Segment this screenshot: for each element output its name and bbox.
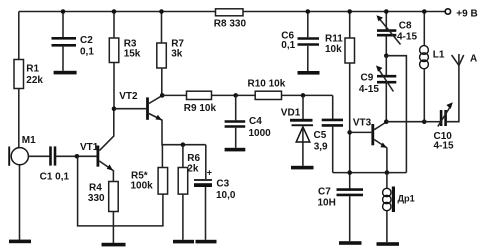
ground C6 xyxy=(298,71,320,75)
svg-text:R10 10k: R10 10k xyxy=(248,79,286,90)
wire VT1 emitter to R4 xyxy=(112,170,114,182)
wire node to R5 xyxy=(161,145,163,168)
node rail C8 xyxy=(384,9,389,14)
svg-text:10,0: 10,0 xyxy=(216,190,236,201)
wire tank xyxy=(386,121,424,123)
svg-text:4-15: 4-15 xyxy=(397,32,417,43)
wire emitter rail xyxy=(333,172,407,174)
svg-text:+9 В: +9 В xyxy=(456,9,477,20)
ground C3 xyxy=(196,240,217,244)
svg-text:C3: C3 xyxy=(216,179,229,190)
node VT2 collector xyxy=(160,93,165,98)
wire R6 to ground xyxy=(182,194,184,240)
wire top rail right segment xyxy=(243,11,445,13)
ground R4 xyxy=(102,243,126,247)
svg-text:VT2: VT2 xyxy=(119,91,138,102)
wire collector to R9 xyxy=(162,94,186,96)
svg-text:C9: C9 xyxy=(361,73,374,84)
capacitor C3 electrolytic xyxy=(194,145,236,240)
node VT3 collector xyxy=(384,119,389,124)
wire VT2 emitter node xyxy=(162,120,206,145)
svg-text:VT3: VT3 xyxy=(353,118,372,129)
wire R7 to VT2 collector xyxy=(161,68,163,95)
svg-text:1000: 1000 xyxy=(249,128,272,139)
node C8/C9 tee xyxy=(384,53,389,58)
svg-text:R8 330: R8 330 xyxy=(214,18,247,29)
resistor R8 xyxy=(214,9,247,30)
node +9V terminal xyxy=(445,9,478,20)
node R6 top xyxy=(181,142,186,147)
svg-text:+: + xyxy=(207,168,212,178)
resistor R6 xyxy=(178,153,200,194)
node VT2 base xyxy=(112,106,117,111)
resistor R7 xyxy=(157,39,185,69)
svg-text:100k: 100k xyxy=(131,181,154,192)
varicap VD1 xyxy=(281,95,313,165)
svg-text:M1: M1 xyxy=(22,135,36,146)
svg-text:C8: C8 xyxy=(399,21,412,32)
svg-text:VT1: VT1 xyxy=(80,142,99,153)
wire rail to R1 xyxy=(18,12,20,60)
inductor L1 xyxy=(420,12,445,122)
node base VT1 xyxy=(75,154,80,159)
svg-text:0,1: 0,1 xyxy=(281,40,295,51)
microphone M1 xyxy=(9,135,36,166)
wire feedback R5 to VT1 base xyxy=(78,156,163,226)
resistor R1 xyxy=(14,60,43,89)
svg-text:R9 10k: R9 10k xyxy=(184,103,217,114)
svg-text:10k: 10k xyxy=(325,44,342,55)
svg-text:R1: R1 xyxy=(26,64,39,75)
svg-text:0,1: 0,1 xyxy=(80,47,94,58)
choke Dr1 xyxy=(383,173,415,243)
svg-text:4-15: 4-15 xyxy=(359,84,379,95)
node rail R3 xyxy=(112,9,117,14)
wire C1 to node xyxy=(56,155,97,157)
capacitor C6 xyxy=(281,12,319,72)
node emitter rail Dr1 xyxy=(385,170,390,175)
ground C7 xyxy=(339,241,362,245)
svg-text:2k: 2k xyxy=(187,164,199,175)
resistor R3 xyxy=(109,38,141,63)
wire top rail left segment xyxy=(19,11,216,13)
node VT3 base xyxy=(347,130,352,135)
trimmer capacitor C9 xyxy=(359,56,396,122)
resistor R10 xyxy=(248,79,286,100)
transistor VT1 xyxy=(80,109,114,171)
wire R9 to node xyxy=(212,94,256,96)
svg-text:3,9: 3,9 xyxy=(314,142,328,153)
wire C5 to emitter rail xyxy=(332,127,334,173)
node R9/R10/C4 xyxy=(233,93,238,98)
trimmer capacitor C10 xyxy=(434,102,454,151)
transistor VT3 xyxy=(350,118,387,148)
capacitor C1 xyxy=(40,146,70,182)
wire rail to R7 xyxy=(161,12,163,44)
ground M1 xyxy=(9,240,31,244)
node rail R7 xyxy=(159,9,164,14)
resistor R9 xyxy=(184,91,217,114)
svg-text:C5: C5 xyxy=(314,130,327,141)
wire R11 to VT3 base and C7 xyxy=(349,63,351,189)
wire R3 to VT2 base xyxy=(113,63,115,109)
svg-text:R11: R11 xyxy=(325,34,343,45)
wire rail to R3 xyxy=(113,12,115,39)
node tank L1 xyxy=(422,119,427,124)
wire VT3 emitter down xyxy=(386,148,388,173)
svg-text:Др1: Др1 xyxy=(398,194,415,204)
node rail R11 xyxy=(347,9,352,14)
svg-text:10H: 10H xyxy=(318,198,336,209)
resistor R5 xyxy=(131,168,168,195)
svg-text:L1: L1 xyxy=(433,50,445,61)
ground VD1 xyxy=(291,166,314,170)
wire R10 to node xyxy=(282,94,333,96)
node rail C2 xyxy=(61,9,66,14)
svg-text:4-15: 4-15 xyxy=(434,141,454,152)
ground R6 xyxy=(173,240,194,244)
wire node to C5 xyxy=(332,95,334,119)
wire M1 to C1 xyxy=(28,155,49,157)
svg-text:R6: R6 xyxy=(187,153,200,164)
ground C4 xyxy=(225,148,246,152)
capacitor C5 xyxy=(314,120,344,153)
wire M1 to ground xyxy=(19,165,21,240)
capacitor C4 xyxy=(225,95,272,147)
resistor R11 xyxy=(325,34,355,64)
node rail C6 xyxy=(306,9,311,14)
wire tee to right drop xyxy=(386,56,406,173)
wire R1 to M1 xyxy=(18,89,20,149)
node emitter rail C7 xyxy=(347,170,352,175)
wire R4 to ground xyxy=(112,212,114,244)
capacitor C2 xyxy=(52,12,95,71)
ground Dr1 xyxy=(377,242,400,246)
wire tank to C10 xyxy=(424,121,440,123)
svg-text:22k: 22k xyxy=(26,75,43,86)
svg-text:VD1: VD1 xyxy=(281,108,301,119)
node R10/VD1/C5 xyxy=(301,93,306,98)
svg-text:330: 330 xyxy=(88,193,105,204)
trimmer capacitor C8 xyxy=(377,12,418,56)
svg-text:A: A xyxy=(470,54,477,65)
svg-text:C4: C4 xyxy=(249,116,262,127)
ground C2 xyxy=(54,71,77,75)
capacitor C7 xyxy=(318,187,364,242)
svg-text:R4: R4 xyxy=(89,183,102,194)
node rail L1 xyxy=(422,9,427,14)
antenna A xyxy=(452,54,478,66)
svg-text:C1 0,1: C1 0,1 xyxy=(40,172,70,183)
svg-text:3k: 3k xyxy=(171,49,183,60)
wire C10 to antenna xyxy=(447,65,459,121)
svg-text:15k: 15k xyxy=(124,49,141,60)
wire rail to R11 xyxy=(349,12,351,39)
resistor R4 xyxy=(88,182,118,212)
wire node to R6 xyxy=(182,145,184,168)
transistor VT2 xyxy=(114,91,162,120)
svg-text:C2: C2 xyxy=(80,35,93,46)
svg-text:C7: C7 xyxy=(318,187,331,198)
